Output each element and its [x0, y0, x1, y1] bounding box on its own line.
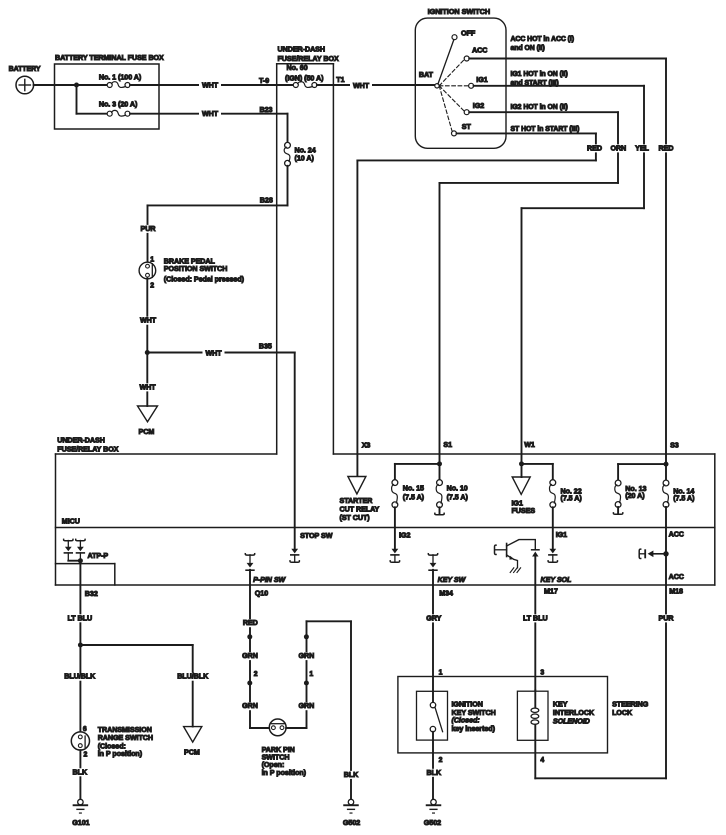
- svg-text:STEERING: STEERING: [612, 701, 649, 709]
- svg-text:FUSES: FUSES: [512, 507, 536, 515]
- svg-text:STARTER: STARTER: [340, 497, 374, 505]
- svg-text:No. 60: No. 60: [287, 64, 308, 72]
- svg-text:ACC HOT in ACC (I): ACC HOT in ACC (I): [511, 36, 575, 43]
- svg-text:W1: W1: [524, 441, 535, 449]
- svg-text:KEY: KEY: [553, 701, 568, 709]
- svg-text:WHT: WHT: [205, 350, 222, 358]
- svg-text:INTERLOCK: INTERLOCK: [553, 709, 595, 717]
- svg-text:ACC: ACC: [472, 47, 487, 55]
- svg-text:M34: M34: [439, 589, 453, 597]
- svg-text:GRN: GRN: [299, 702, 315, 710]
- svg-text:(7.5 A): (7.5 A): [447, 494, 469, 502]
- svg-text:ACC: ACC: [669, 530, 684, 538]
- svg-text:BLK: BLK: [344, 771, 359, 779]
- svg-text:2: 2: [84, 752, 88, 759]
- svg-text:X3: X3: [362, 441, 371, 449]
- svg-text:in P position): in P position): [98, 750, 143, 758]
- svg-text:ORN: ORN: [610, 144, 626, 152]
- svg-text:SWITCH: SWITCH: [262, 753, 290, 761]
- svg-text:IG2: IG2: [473, 102, 484, 110]
- svg-text:ACC: ACC: [669, 573, 684, 581]
- svg-text:B32: B32: [85, 590, 98, 598]
- svg-text:TRANSMISSION: TRANSMISSION: [98, 726, 152, 734]
- svg-text:FUSE/RELAY BOX: FUSE/RELAY BOX: [57, 445, 118, 453]
- svg-text:(Closed:: (Closed:: [452, 717, 481, 725]
- svg-text:IG1 HOT in ON (II): IG1 HOT in ON (II): [511, 71, 568, 78]
- svg-text:UNDER-DASH: UNDER-DASH: [278, 45, 326, 53]
- svg-text:BLK: BLK: [73, 768, 88, 776]
- svg-text:BLU/BLK: BLU/BLK: [177, 673, 209, 681]
- svg-text:T1: T1: [336, 76, 344, 84]
- svg-text:YEL: YEL: [635, 144, 649, 152]
- svg-text:KEY SOL: KEY SOL: [541, 576, 572, 584]
- svg-text:IG1: IG1: [556, 531, 567, 539]
- svg-text:IG1: IG1: [476, 76, 487, 84]
- svg-text:RED: RED: [587, 144, 602, 152]
- svg-text:(7.5 A): (7.5 A): [673, 495, 695, 503]
- svg-text:CUT RELAY: CUT RELAY: [340, 506, 380, 514]
- svg-text:PUR: PUR: [141, 225, 157, 233]
- svg-text:LT BLU: LT BLU: [523, 614, 548, 622]
- svg-text:IGNITION SWITCH: IGNITION SWITCH: [428, 7, 491, 16]
- svg-text:G502: G502: [424, 819, 441, 827]
- svg-text:G502: G502: [343, 819, 360, 827]
- svg-text:ST: ST: [462, 123, 472, 131]
- svg-text:RED: RED: [659, 144, 674, 152]
- svg-text:BATTERY TERMINAL FUSE BOX: BATTERY TERMINAL FUSE BOX: [55, 54, 164, 62]
- svg-text:and START (III): and START (III): [511, 80, 559, 87]
- svg-text:LT BLU: LT BLU: [68, 614, 93, 622]
- svg-text:IGNITION: IGNITION: [452, 701, 483, 709]
- svg-text:PCM: PCM: [139, 428, 155, 436]
- svg-text:FUSE/RELAY BOX: FUSE/RELAY BOX: [278, 55, 339, 63]
- svg-text:T-9: T-9: [259, 77, 269, 85]
- svg-text:S3: S3: [670, 441, 679, 449]
- svg-text:RED: RED: [243, 619, 258, 627]
- svg-text:PCM: PCM: [184, 749, 200, 757]
- svg-text:3: 3: [540, 670, 544, 677]
- svg-text:POSITION SWITCH: POSITION SWITCH: [164, 265, 228, 273]
- svg-text:RANGE SWITCH: RANGE SWITCH: [98, 734, 153, 742]
- svg-text:(10 A): (10 A): [295, 155, 315, 163]
- svg-text:SOLENOID: SOLENOID: [553, 718, 590, 726]
- svg-text:M17: M17: [544, 587, 558, 595]
- svg-text:in P position): in P position): [262, 769, 307, 777]
- svg-text:(7.5 A): (7.5 A): [403, 494, 425, 502]
- svg-text:IG2: IG2: [399, 532, 410, 540]
- svg-text:GRN: GRN: [242, 652, 258, 660]
- svg-text:M18: M18: [669, 587, 683, 595]
- svg-text:key inserted): key inserted): [452, 725, 496, 733]
- svg-text:LOCK: LOCK: [612, 709, 633, 717]
- svg-text:(IGN) (50 A): (IGN) (50 A): [285, 74, 324, 82]
- svg-text:BATTERY: BATTERY: [9, 66, 41, 73]
- svg-text:(ST CUT): (ST CUT): [340, 514, 371, 522]
- svg-text:WHT: WHT: [140, 317, 157, 325]
- svg-text:6: 6: [83, 726, 87, 733]
- svg-text:(Closed: Pedal pressed): (Closed: Pedal pressed): [164, 276, 245, 284]
- svg-text:1: 1: [150, 257, 154, 264]
- svg-text:WHT: WHT: [202, 81, 219, 89]
- svg-text:(7.5 A): (7.5 A): [561, 495, 583, 503]
- svg-text:No. 1 (100 A): No. 1 (100 A): [99, 74, 142, 82]
- svg-text:B35: B35: [259, 342, 272, 350]
- svg-text:No. 3 (20 A): No. 3 (20 A): [99, 101, 138, 109]
- svg-text:B23: B23: [260, 106, 273, 114]
- svg-text:WHT: WHT: [353, 82, 370, 90]
- svg-text:KEY SWITCH: KEY SWITCH: [452, 709, 496, 717]
- svg-text:G101: G101: [72, 819, 89, 827]
- svg-text:ST HOT in START (III): ST HOT in START (III): [511, 126, 580, 133]
- svg-text:GRY: GRY: [426, 614, 441, 622]
- svg-text:2: 2: [150, 283, 154, 290]
- svg-text:BAT: BAT: [419, 71, 434, 79]
- svg-text:BLU/BLK: BLU/BLK: [64, 673, 96, 681]
- svg-text:2: 2: [254, 671, 258, 678]
- svg-text:No. 24: No. 24: [295, 146, 316, 154]
- svg-text:B28: B28: [260, 197, 273, 205]
- svg-text:OFF: OFF: [461, 29, 476, 37]
- svg-text:STOP SW: STOP SW: [300, 532, 333, 540]
- svg-text:PUR: PUR: [659, 614, 675, 622]
- svg-text:1: 1: [309, 671, 313, 678]
- svg-text:IG1: IG1: [512, 499, 523, 507]
- svg-text:GRN: GRN: [242, 702, 258, 710]
- svg-text:and ON (II): and ON (II): [511, 45, 545, 52]
- svg-text:MICU: MICU: [62, 517, 80, 525]
- svg-text:ATP-P: ATP-P: [88, 552, 109, 560]
- svg-text:P-PIN SW: P-PIN SW: [253, 576, 286, 584]
- svg-text:Q10: Q10: [255, 589, 268, 597]
- svg-text:No. 15: No. 15: [403, 485, 424, 493]
- svg-text:2: 2: [439, 757, 443, 764]
- svg-text:UNDER-DASH: UNDER-DASH: [57, 436, 105, 444]
- svg-text:WHT: WHT: [202, 110, 219, 118]
- svg-text:WHT: WHT: [139, 383, 156, 391]
- svg-text:KEY SW: KEY SW: [438, 576, 467, 584]
- svg-text:S1: S1: [443, 441, 452, 449]
- svg-text:GRN: GRN: [299, 652, 315, 660]
- svg-text:BLK: BLK: [427, 769, 442, 777]
- svg-text:(20 A): (20 A): [625, 492, 645, 500]
- svg-text:IG2 HOT in ON (II): IG2 HOT in ON (II): [511, 104, 568, 111]
- svg-text:1: 1: [439, 670, 443, 677]
- svg-text:4: 4: [540, 757, 544, 764]
- svg-text:No. 10: No. 10: [447, 485, 468, 493]
